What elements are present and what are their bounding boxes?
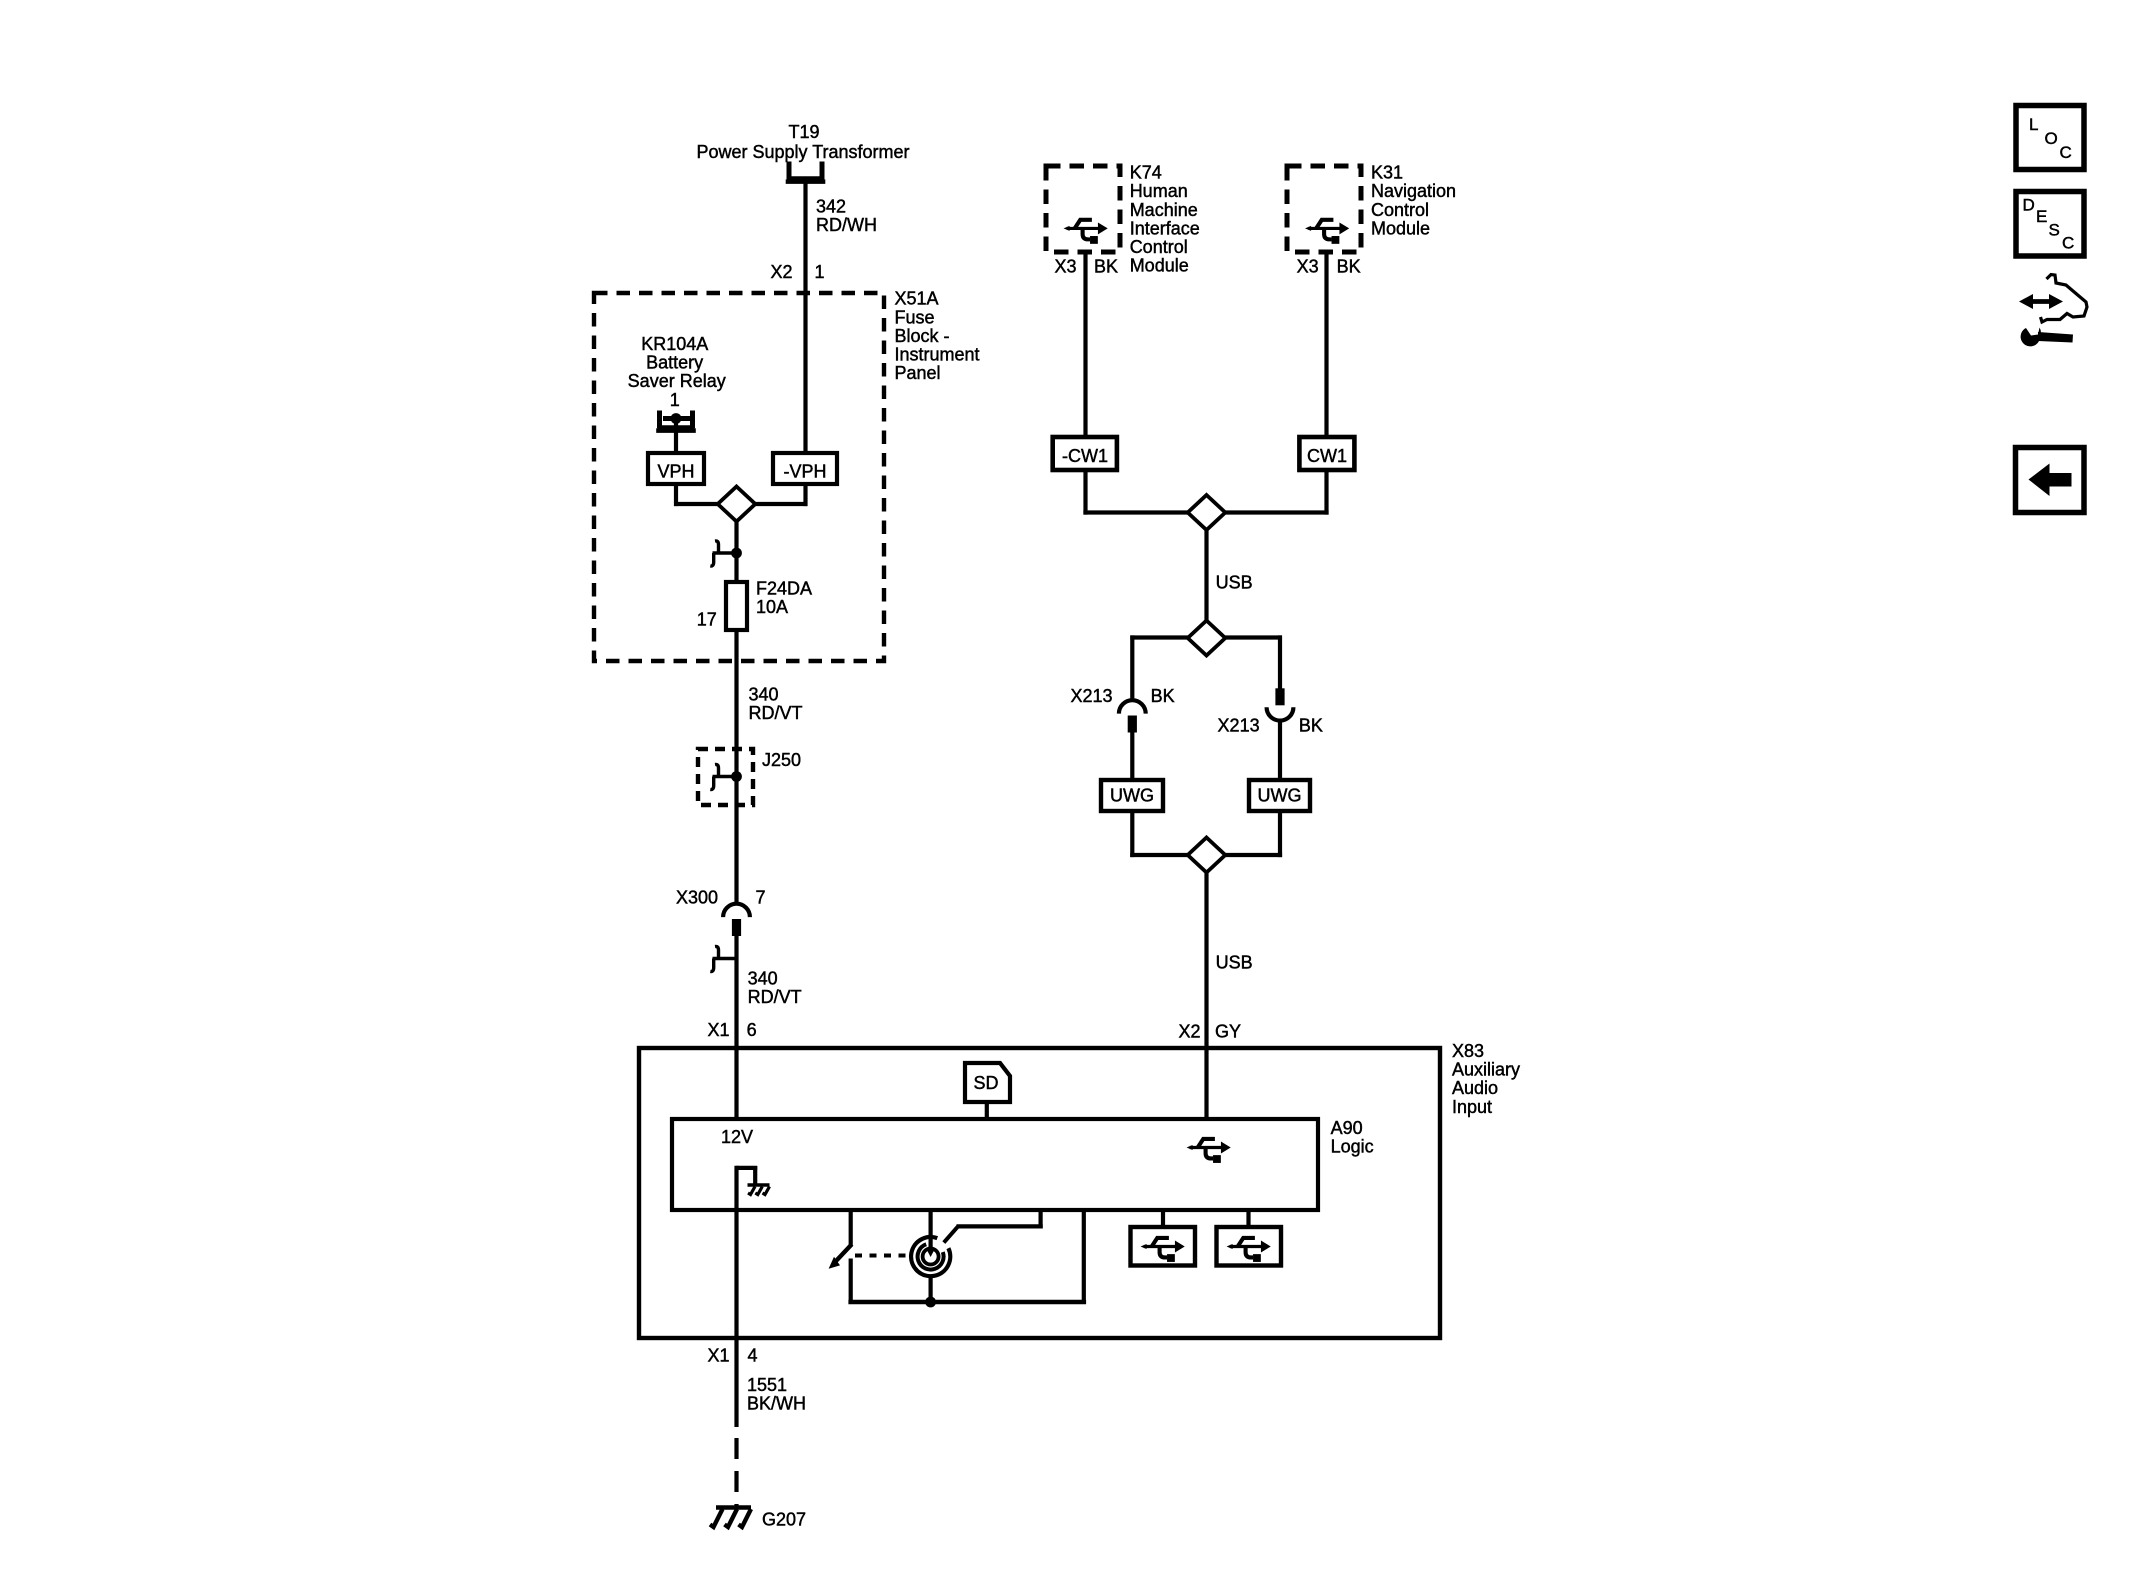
usb icon in port box 2 <box>1227 1238 1271 1262</box>
svg-text:X83: X83 <box>1452 1041 1484 1061</box>
wire K74 to -CW1 <box>1083 252 1087 438</box>
svg-text:UWG: UWG <box>1258 786 1302 806</box>
connector X300 symbol <box>723 904 750 936</box>
splice diamond USB lower <box>1188 838 1226 873</box>
terminal VPH box <box>648 453 704 484</box>
svg-text:K74: K74 <box>1130 163 1162 183</box>
auxiliary audio input X83 box <box>639 1048 1440 1338</box>
fuse F24DA symbol <box>726 582 747 630</box>
jack sleeve wire to tie line <box>928 1276 932 1305</box>
splice diamond USB upper <box>1188 495 1226 530</box>
wire X213 right to UWG <box>1278 720 1282 782</box>
svg-text:Audio: Audio <box>1452 1078 1498 1098</box>
svg-text:1: 1 <box>670 390 680 410</box>
terminal -CW1 box <box>1053 437 1117 470</box>
internal ground branch in A90 <box>737 1166 758 1170</box>
module K74 dashed box <box>1046 166 1120 252</box>
svg-text:X1: X1 <box>707 1346 729 1366</box>
switch lower wire <box>849 1259 853 1305</box>
wire diamond to right X213 <box>1224 635 1282 639</box>
svg-text:X3: X3 <box>1054 257 1076 277</box>
svg-text:Power Supply Transformer: Power Supply Transformer <box>696 142 909 162</box>
svg-text:D: D <box>2023 196 2035 215</box>
svg-text:C: C <box>2062 234 2074 253</box>
svg-text:S: S <box>2049 221 2060 240</box>
clip symbol below X300 <box>710 946 736 971</box>
back arrow icon box <box>2016 448 2085 513</box>
audio jack inner circle <box>923 1249 939 1265</box>
wire USB between diamonds <box>1204 530 1208 621</box>
svg-text:Control: Control <box>1371 200 1429 220</box>
svg-text:Fuse: Fuse <box>895 307 935 327</box>
wire -VPH to splice diamond <box>803 484 807 506</box>
svg-text:1: 1 <box>815 262 825 282</box>
usb icon inside K31 <box>1305 220 1349 244</box>
connector view icon outline <box>2041 275 2088 323</box>
switch blade arrowhead <box>829 1257 840 1269</box>
svg-text:Navigation: Navigation <box>1371 181 1456 201</box>
jack center wire with arrowhead <box>928 1209 932 1249</box>
svg-text:A90: A90 <box>1331 1118 1363 1138</box>
wire from relay KR104A to VPH <box>674 419 678 455</box>
wire X213 left to UWG <box>1130 732 1134 781</box>
svg-text:Module: Module <box>1371 218 1430 238</box>
svg-text:340: 340 <box>749 685 779 705</box>
usb port box 1 <box>1161 1209 1165 1228</box>
terminal UWG left box <box>1101 780 1163 811</box>
ground G207 symbol <box>710 1508 751 1528</box>
svg-text:RD/WH: RD/WH <box>816 215 877 235</box>
wire 342 RD/WH from T19 to fuse block X2-1 <box>803 183 807 455</box>
svg-text:X3: X3 <box>1297 257 1319 277</box>
wire SD to A90 <box>985 1102 989 1121</box>
svg-text:-VPH: -VPH <box>783 462 826 482</box>
svg-text:KR104A: KR104A <box>641 334 708 354</box>
svg-text:Battery: Battery <box>646 353 703 373</box>
splice diamond in fuse block <box>718 487 756 522</box>
terminal CW1 box <box>1299 437 1354 470</box>
SD card symbol <box>965 1063 1010 1102</box>
internal ground symbol <box>748 1185 770 1195</box>
svg-text:-CW1: -CW1 <box>1062 446 1108 466</box>
svg-text:1551: 1551 <box>747 1375 787 1395</box>
svg-text:X2: X2 <box>770 262 792 282</box>
usb icon inside A90 <box>1187 1139 1231 1163</box>
right return wire below A90 <box>1082 1209 1086 1304</box>
svg-text:SD: SD <box>973 1073 998 1093</box>
svg-text:G207: G207 <box>762 1510 806 1530</box>
svg-text:X2: X2 <box>1178 1022 1200 1042</box>
wire CW1 to splice diamond <box>1324 470 1328 515</box>
wire diamond to left X213 <box>1130 635 1189 639</box>
svg-text:T19: T19 <box>788 122 819 142</box>
audio jack symbol outer ring <box>911 1237 950 1276</box>
clip symbol inside J250 with junction dot <box>710 764 742 789</box>
back arrow <box>2029 464 2072 497</box>
svg-text:Machine: Machine <box>1130 200 1198 220</box>
connector X213 left symbol <box>1119 700 1146 732</box>
svg-text:Auxiliary: Auxiliary <box>1452 1060 1520 1080</box>
svg-text:F24DA: F24DA <box>756 578 812 598</box>
connector view icon double arrow <box>2030 299 2052 304</box>
wire from diamond to fuse F24DA <box>734 522 738 584</box>
svg-text:7: 7 <box>756 888 766 908</box>
svg-text:Block -: Block - <box>895 326 950 346</box>
wire 340 RD/VT from fuse to X300 <box>734 630 738 905</box>
svg-text:BK: BK <box>1337 257 1361 277</box>
svg-text:Human: Human <box>1130 181 1188 201</box>
svg-text:BK: BK <box>1151 686 1175 706</box>
svg-text:VPH: VPH <box>657 462 694 482</box>
bottom tie line <box>848 1300 1086 1305</box>
svg-text:10A: 10A <box>756 597 788 617</box>
svg-text:4: 4 <box>748 1346 758 1366</box>
svg-text:USB: USB <box>1216 573 1253 593</box>
svg-text:12V: 12V <box>721 1127 753 1147</box>
wire -CW1 to splice diamond <box>1083 470 1087 515</box>
svg-text:X51A: X51A <box>895 289 939 309</box>
splice pack J250 dashed box <box>698 749 753 805</box>
usb icon in port box 1 <box>1141 1238 1185 1262</box>
svg-text:BK: BK <box>1299 716 1323 736</box>
svg-text:Control: Control <box>1130 237 1188 257</box>
usb port box 2 <box>1246 1209 1250 1228</box>
terminal -VPH box <box>773 453 837 484</box>
svg-text:USB: USB <box>1216 952 1253 972</box>
splice diamond USB middle <box>1188 621 1226 656</box>
dashed linkage switch to jack <box>855 1254 912 1258</box>
LOC navigation icon box <box>2016 106 2084 170</box>
dashed wire to G207 <box>734 1438 738 1506</box>
wire USB to X83 box <box>1204 873 1208 1122</box>
switch wire below A90 <box>849 1209 853 1247</box>
svg-text:342: 342 <box>816 196 846 216</box>
relay KR104A output symbol <box>656 411 696 431</box>
svg-text:X213: X213 <box>1070 686 1112 706</box>
svg-text:J250: J250 <box>762 750 801 770</box>
svg-text:340: 340 <box>748 969 778 989</box>
wire UWG left to lower diamond <box>1130 811 1134 857</box>
svg-text:RD/VT: RD/VT <box>749 703 803 723</box>
wire UWG right to lower diamond <box>1278 811 1282 857</box>
wire below X300 to A90 12V port <box>734 936 738 1121</box>
svg-text:BK/WH: BK/WH <box>747 1394 806 1414</box>
svg-text:Interface: Interface <box>1130 218 1200 238</box>
svg-text:X300: X300 <box>676 888 718 908</box>
svg-text:Logic: Logic <box>1331 1137 1374 1157</box>
junction dot on tie line <box>925 1297 936 1308</box>
svg-text:E: E <box>2036 207 2047 226</box>
svg-text:Input: Input <box>1452 1097 1492 1117</box>
DESC navigation icon box <box>2016 192 2084 257</box>
svg-text:17: 17 <box>697 610 717 630</box>
svg-text:6: 6 <box>747 1020 757 1040</box>
svg-text:Instrument: Instrument <box>895 345 980 365</box>
wire K31 to CW1 <box>1324 252 1328 438</box>
usb icon inside K74 <box>1064 220 1108 244</box>
svg-text:RD/VT: RD/VT <box>748 987 802 1007</box>
fuse block X51A dashed outline <box>594 293 884 661</box>
audio jack middle arc <box>918 1244 944 1269</box>
switch blade <box>836 1244 852 1261</box>
jack tip contact wire <box>1038 1209 1042 1229</box>
wire from A90 internal node to X1-4 <box>734 1166 738 1427</box>
svg-text:O: O <box>2045 129 2058 148</box>
transformer T19 symbol <box>786 162 826 182</box>
module K31 dashed box <box>1287 166 1361 252</box>
svg-text:K31: K31 <box>1371 163 1403 183</box>
svg-text:BK: BK <box>1094 257 1118 277</box>
svg-text:X213: X213 <box>1218 716 1260 736</box>
svg-text:UWG: UWG <box>1110 786 1154 806</box>
svg-text:X1: X1 <box>707 1020 729 1040</box>
svg-text:C: C <box>2060 143 2072 162</box>
clip symbol with junction dot <box>710 541 742 566</box>
svg-text:Module: Module <box>1130 256 1189 276</box>
svg-text:Saver Relay: Saver Relay <box>628 371 726 391</box>
svg-text:L: L <box>2029 115 2038 134</box>
connector X213 right symbol flipped <box>1267 688 1294 720</box>
logic module A90 box <box>672 1119 1318 1210</box>
svg-text:Panel: Panel <box>895 363 941 383</box>
wrench icon <box>2021 328 2073 347</box>
wire VPH to splice diamond <box>674 484 678 506</box>
terminal UWG right box <box>1249 780 1310 811</box>
svg-text:GY: GY <box>1215 1022 1241 1042</box>
svg-text:CW1: CW1 <box>1307 446 1347 466</box>
